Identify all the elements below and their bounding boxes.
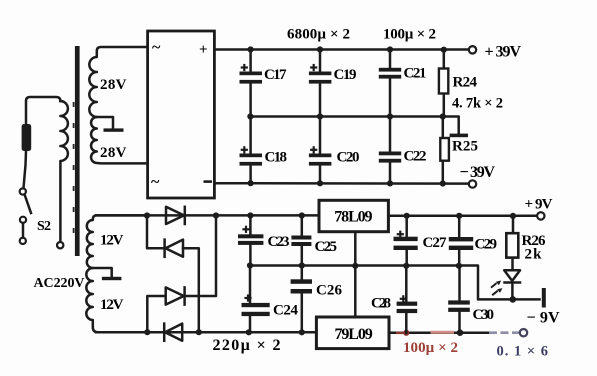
svg-text:28V: 28V bbox=[100, 145, 127, 161]
svg-text:78L09: 78L09 bbox=[334, 209, 372, 226]
svg-text:4. 7k × 2: 4. 7k × 2 bbox=[452, 96, 503, 112]
fuse FU bbox=[22, 124, 32, 151]
node C30 bottom bbox=[457, 329, 464, 336]
svg-text:C26: C26 bbox=[316, 283, 343, 299]
capacitor C22 bbox=[379, 117, 427, 184]
svg-text:− 39V: − 39V bbox=[460, 164, 496, 181]
regulator U2 79L09 bbox=[316, 317, 389, 349]
node C18 bottom bbox=[248, 180, 254, 186]
node C26 bottom bbox=[299, 329, 305, 335]
svg-text:+ 9V: + 9V bbox=[525, 197, 553, 213]
node C23-C24 bbox=[247, 262, 253, 268]
svg-text:6800µ × 2: 6800µ × 2 bbox=[287, 27, 350, 43]
wire unregulated +rail (lower section) bbox=[96, 214, 319, 217]
capacitor C28 bbox=[371, 266, 417, 333]
diode D1 bbox=[166, 207, 185, 224]
wire D3 branch bbox=[147, 216, 216, 333]
wire regulators ground link bbox=[354, 232, 357, 318]
AC terminal (right) bbox=[57, 242, 63, 248]
node C28 bottom bbox=[403, 330, 409, 336]
capacitor C26 bbox=[291, 266, 343, 333]
svg-text:R25: R25 bbox=[452, 139, 478, 155]
wire common middle rail (lower section) bbox=[250, 266, 540, 300]
svg-text:C23: C23 bbox=[268, 234, 290, 250]
svg-text:C27: C27 bbox=[423, 235, 448, 251]
svg-text:C25: C25 bbox=[315, 239, 338, 255]
capacitor C30 bbox=[448, 266, 494, 333]
terminal -9V bbox=[520, 329, 527, 336]
ground (12V center tap) bbox=[93, 268, 122, 280]
svg-text:79L09: 79L09 bbox=[335, 326, 373, 343]
ground (28V center tap) bbox=[97, 117, 124, 132]
node D2 branch bottom bbox=[196, 329, 202, 335]
node C27 top bbox=[404, 213, 410, 219]
svg-text:C20: C20 bbox=[337, 150, 360, 166]
bridge rectifier U (block) bbox=[148, 31, 215, 198]
svg-text:C18: C18 bbox=[265, 150, 288, 166]
node C19-C20 bbox=[317, 113, 323, 119]
terminal +9V bbox=[537, 212, 544, 219]
svg-text:0. 1 × 6: 0. 1 × 6 bbox=[497, 344, 550, 360]
node D1-D3 join bbox=[213, 212, 219, 218]
wire fuse to switch bbox=[24, 151, 27, 188]
wire -39V bottom rail bbox=[214, 182, 468, 185]
node C29 top bbox=[456, 213, 462, 219]
svg-text:~: ~ bbox=[151, 174, 160, 191]
capacitor C24 bbox=[242, 266, 299, 333]
svg-text:C17: C17 bbox=[264, 67, 287, 83]
svg-text:2k: 2k bbox=[525, 247, 543, 263]
svg-text:12V: 12V bbox=[100, 233, 124, 249]
node R26 top bbox=[510, 213, 516, 219]
node C24 bottom bbox=[246, 329, 252, 335]
capacitor C23 bbox=[238, 216, 290, 266]
svg-text:C19: C19 bbox=[334, 67, 357, 83]
node R24-R25 bbox=[440, 113, 446, 119]
node C25-C26 bbox=[299, 262, 305, 268]
node C17 top bbox=[248, 46, 254, 52]
node R25 bottom bbox=[440, 180, 446, 186]
transformer secondary winding 12V x2 bbox=[86, 215, 147, 332]
wire 0V middle rail (upper section) bbox=[250, 117, 458, 134]
svg-text:C30: C30 bbox=[473, 307, 495, 323]
capacitor C29 bbox=[449, 216, 497, 266]
svg-text:+: + bbox=[199, 42, 208, 58]
svg-text:28V: 28V bbox=[100, 77, 127, 93]
svg-text:C28: C28 bbox=[371, 296, 391, 312]
svg-text:12V: 12V bbox=[100, 297, 124, 313]
ground (upper mid rail) bbox=[450, 134, 468, 138]
svg-text:C22: C22 bbox=[404, 149, 427, 165]
terminal -39V bbox=[469, 180, 476, 187]
node C17-C18 bbox=[247, 113, 253, 119]
svg-text:R24: R24 bbox=[453, 75, 478, 91]
svg-text:220µ × 2: 220µ × 2 bbox=[213, 337, 281, 354]
wire grey retouch segment bbox=[489, 331, 519, 334]
capacitor C20 bbox=[309, 117, 360, 184]
capacitor C27 bbox=[394, 216, 448, 266]
capacitor C21 bbox=[379, 50, 427, 117]
resistor R26 bbox=[506, 216, 546, 270]
node C23 top bbox=[247, 212, 253, 218]
svg-text:100µ × 2: 100µ × 2 bbox=[383, 27, 436, 43]
svg-text:− 9V: − 9V bbox=[527, 310, 560, 327]
LED VD bbox=[491, 270, 520, 299]
resistor R25 bbox=[440, 117, 478, 184]
node C19 top bbox=[317, 46, 323, 52]
svg-text:+ 39V: + 39V bbox=[485, 44, 522, 61]
transformer core bbox=[75, 46, 80, 256]
node C27-C28 bbox=[403, 263, 409, 269]
node LED cathode bbox=[510, 296, 517, 303]
svg-text:C24: C24 bbox=[273, 303, 299, 319]
wire +39V top rail bbox=[214, 48, 468, 51]
capacitor C25 bbox=[291, 216, 337, 266]
svg-text:C21: C21 bbox=[404, 66, 427, 82]
node C21 top bbox=[387, 46, 393, 52]
svg-text:AC220V: AC220V bbox=[34, 276, 85, 291]
transformer secondary winding 28V x2 bbox=[89, 47, 147, 163]
regulator U1 78L09 bbox=[319, 200, 388, 231]
svg-text:100µ × 2: 100µ × 2 bbox=[403, 340, 458, 356]
svg-text:S2: S2 bbox=[37, 219, 51, 234]
terminal +39V bbox=[469, 46, 476, 53]
diode D2 bbox=[165, 240, 183, 257]
switch S2 bbox=[20, 188, 51, 244]
wire unregulated -rail (lower section) bbox=[96, 331, 316, 334]
svg-text:~: ~ bbox=[152, 39, 161, 56]
capacitor C18 bbox=[240, 117, 288, 184]
node C22 bottom bbox=[387, 180, 393, 186]
transformer T primary winding bbox=[60, 101, 68, 242]
svg-text:C29: C29 bbox=[475, 237, 498, 253]
ground (LED return bar) bbox=[542, 288, 546, 308]
wire -9V rail bbox=[389, 332, 491, 335]
wire +9V rail bbox=[388, 215, 537, 218]
capacitor C17 bbox=[240, 50, 288, 117]
resistor R24 bbox=[439, 50, 478, 117]
node C29-C30 bbox=[456, 263, 462, 269]
node top rail / D2 branch bbox=[144, 212, 150, 218]
wire AC line left vertical and top to primary bbox=[26, 97, 60, 125]
node D3 branch bottom bbox=[144, 329, 150, 335]
diode D3 bbox=[166, 287, 185, 304]
diode D4 bbox=[164, 324, 182, 341]
node reg ground bbox=[352, 263, 358, 269]
node C20 bottom bbox=[317, 180, 323, 186]
wire red retouch on -9V rail bbox=[396, 332, 404, 334]
wire D2 branch bbox=[147, 216, 199, 333]
node C21-C22 bbox=[387, 113, 393, 119]
node C25 top bbox=[299, 212, 305, 218]
node R24 top bbox=[441, 47, 447, 53]
capacitor C19 bbox=[309, 50, 357, 117]
